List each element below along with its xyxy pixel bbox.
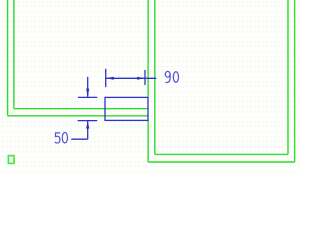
wire right-room outer-left vertical wall upper part: [147, 0, 149, 97]
wire dim50 upper stub: [87, 77, 89, 97]
dim90 text digit 0: [173, 72, 178, 83]
wire dim50 bottom extension line: [78, 120, 98, 122]
wire dim90 dimension line: [106, 77, 157, 79]
wire left-room inner vertical wall: [13, 0, 15, 109]
node grip square: [8, 156, 14, 164]
wire dim50 lower stub: [87, 121, 89, 139]
wire right-room inner bottom wall: [155, 153, 288, 155]
wire left-room inner horizontal wall: [14, 108, 148, 110]
wire dim90 right extension line: [144, 70, 146, 85]
dim90 left arrowhead: [106, 77, 114, 80]
dim50 down arrowhead: [86, 89, 89, 97]
wire right-room outer bottom wall: [148, 161, 295, 163]
dim90 text digit 9: [165, 71, 170, 82]
wire left-room outer horizontal wall: [8, 115, 149, 117]
wire right-room inner-left vertical wall: [154, 0, 156, 154]
background with CAD grid dots: [0, 0, 300, 173]
wire dim90 left extension line: [105, 69, 107, 87]
wire right-room inner-right vertical wall: [287, 0, 289, 154]
wire left-room outer vertical wall: [7, 0, 9, 116]
wire right-room outer-right vertical wall: [294, 0, 296, 162]
wire dim50 top extension line: [78, 96, 97, 98]
dim50 up arrowhead: [86, 121, 89, 129]
dim90 right arrowhead: [137, 77, 145, 80]
wire dim50 text leader: [71, 138, 88, 140]
dim50 text digit 0: [62, 133, 67, 143]
dim50 text digit 5: [55, 133, 60, 143]
wire right-room outer-left vertical wall lower part: [147, 120, 149, 162]
door block rectangle: [105, 97, 148, 120]
